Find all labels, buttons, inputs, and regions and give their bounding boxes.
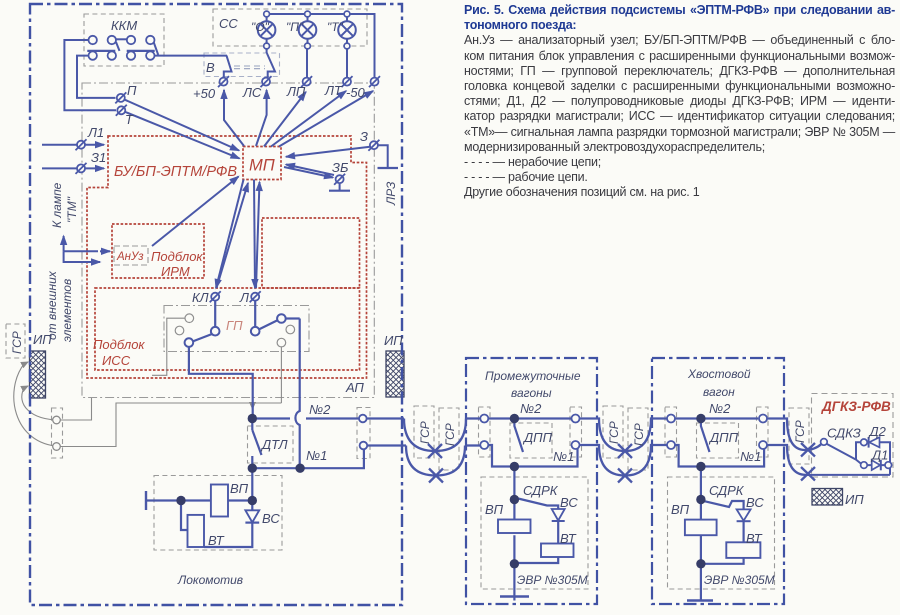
svg-text:№1: №1 (306, 448, 327, 463)
svg-text:СДРК: СДРК (523, 483, 559, 498)
svg-text:№1: №1 (740, 449, 761, 464)
svg-text:Локомотив: Локомотив (177, 573, 243, 587)
svg-text:ВП: ВП (485, 502, 504, 517)
svg-text:Хвостовой: Хвостовой (687, 367, 751, 381)
svg-text:ГСР: ГСР (443, 423, 457, 446)
svg-text:ВС: ВС (262, 511, 280, 526)
svg-text:Д1: Д1 (870, 448, 888, 463)
svg-text:ВС: ВС (746, 495, 764, 510)
svg-text:-50: -50 (346, 85, 366, 100)
svg-text:ГСР: ГСР (793, 420, 807, 443)
svg-text:ГП: ГП (226, 318, 243, 333)
svg-text:ЗБ: ЗБ (332, 160, 349, 175)
svg-text:Л: Л (239, 290, 249, 305)
svg-text:ИП: ИП (384, 333, 403, 348)
svg-text:"О": "О" (251, 20, 270, 34)
svg-text:БУ/БП-ЭПТМ/РФВ: БУ/БП-ЭПТМ/РФВ (114, 164, 237, 180)
svg-text:ДГКЗ-РФВ: ДГКЗ-РФВ (821, 399, 891, 414)
svg-text:ВТ: ВТ (208, 533, 225, 548)
svg-text:ЭВР №305М: ЭВР №305М (704, 573, 775, 587)
svg-text:ЛРЗ: ЛРЗ (384, 181, 398, 206)
svg-text:Подблок: Подблок (93, 337, 145, 352)
svg-text:"П": "П" (286, 20, 304, 34)
svg-text:АП: АП (345, 380, 364, 395)
svg-text:"Т": "Т" (327, 20, 344, 34)
svg-text:элементов: элементов (60, 279, 74, 342)
svg-text:З: З (360, 129, 368, 144)
svg-text:ГСР: ГСР (10, 331, 24, 354)
svg-text:№2: №2 (309, 402, 331, 417)
svg-text:Д2: Д2 (868, 424, 887, 439)
svg-text:+50: +50 (193, 86, 216, 101)
svg-text:вагон: вагон (703, 385, 735, 399)
svg-text:ДПП: ДПП (522, 430, 553, 445)
svg-text:АнУз: АнУз (116, 251, 144, 263)
svg-text:Л1: Л1 (87, 125, 104, 140)
svg-text:ВП: ВП (671, 502, 690, 517)
svg-text:ВТ: ВТ (746, 531, 763, 546)
svg-text:СС: СС (219, 16, 238, 31)
svg-text:СДКЗ: СДКЗ (827, 426, 861, 441)
svg-text:№2: №2 (520, 401, 542, 416)
svg-text:Промежуточные: Промежуточные (485, 369, 581, 383)
svg-text:ДПП: ДПП (708, 430, 739, 445)
svg-text:ВС: ВС (560, 495, 578, 510)
svg-text:ГСР: ГСР (607, 421, 621, 444)
svg-text:ЛП: ЛП (286, 84, 306, 99)
svg-text:ЛС: ЛС (242, 85, 262, 100)
svg-text:З1: З1 (91, 150, 106, 165)
svg-text:ГСР: ГСР (418, 421, 432, 444)
svg-text:Т: Т (125, 112, 134, 127)
svg-text:В: В (206, 60, 215, 75)
svg-text:ИСС: ИСС (102, 353, 131, 368)
svg-text:СДРК: СДРК (709, 483, 745, 498)
svg-text:"ТМ": "ТМ" (65, 196, 79, 223)
svg-text:вагоны: вагоны (511, 386, 552, 400)
svg-text:КЛ: КЛ (192, 290, 209, 305)
svg-text:ЭВР №305М: ЭВР №305М (517, 573, 588, 587)
svg-text:ВП: ВП (230, 481, 249, 496)
svg-text:ДТЛ: ДТЛ (260, 437, 288, 452)
svg-text:ВТ: ВТ (560, 531, 577, 546)
svg-text:№1: №1 (553, 449, 574, 464)
svg-text:ГСР: ГСР (632, 423, 646, 446)
svg-text:ККМ: ККМ (111, 18, 137, 33)
svg-text:ИРМ: ИРМ (161, 264, 190, 279)
svg-text:№2: №2 (709, 401, 731, 416)
svg-text:Подблок: Подблок (151, 249, 203, 264)
svg-text:от внешних: от внешних (45, 270, 59, 340)
svg-text:К лампе: К лампе (50, 182, 64, 228)
svg-text:МП: МП (249, 157, 275, 175)
svg-text:П: П (127, 83, 137, 98)
svg-text:ЛТ: ЛТ (324, 83, 343, 98)
svg-text:ИП: ИП (845, 492, 864, 507)
